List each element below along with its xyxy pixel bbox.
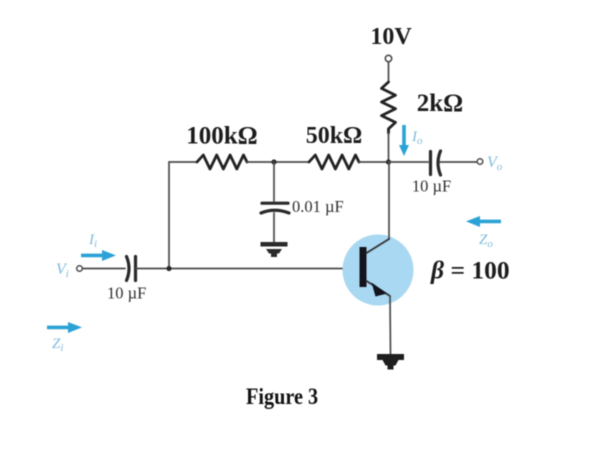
impedance arrow Zo [466, 216, 501, 227]
node junction bypass [271, 159, 276, 164]
wire 50k to collector node [359, 161, 389, 163]
terminal Vi [77, 266, 83, 272]
wire 100k to bypass node [247, 161, 309, 163]
capacitor C bypass 0.01uF [261, 203, 289, 213]
svg-text:2kΩ: 2kΩ [417, 90, 463, 117]
transistor Q1 highlight circle [343, 235, 414, 306]
svg-text:Vi: Vi [56, 261, 69, 280]
svg-text:Zo: Zo [479, 232, 493, 250]
svg-text:Ii: Ii [88, 232, 97, 250]
impedance arrow Zi [47, 322, 82, 333]
resistor R 100k (horizontal zigzag) [197, 155, 247, 169]
svg-text:Io: Io [411, 129, 423, 147]
node junction input [166, 266, 171, 271]
ground bypass [261, 242, 288, 257]
svg-text:50kΩ: 50kΩ [306, 123, 363, 149]
wire bypass cap to ground [273, 213, 275, 242]
wire emitter vertical [389, 296, 392, 354]
transistor Q1 [360, 239, 391, 297]
wire collector node to output cap [389, 161, 429, 163]
supply terminal [385, 55, 391, 61]
svg-text:Vo: Vo [487, 154, 503, 173]
svg-text:10 µF: 10 µF [107, 284, 146, 303]
wire cap to Vo terminal [440, 161, 477, 163]
svg-text:10 µF: 10 µF [412, 177, 451, 196]
svg-text:0.01 µF: 0.01 µF [292, 197, 344, 216]
svg-text:Zi: Zi [52, 336, 63, 354]
wire Vi to input cap [83, 268, 126, 270]
svg-text:β = 100: β = 100 [430, 256, 510, 285]
node junction collector [386, 159, 391, 164]
current arrow Ii [81, 250, 116, 261]
resistor R 2k (vertical zigzag) [382, 82, 396, 133]
wire collector vertical [388, 162, 390, 239]
ground emitter [377, 354, 404, 370]
svg-text:100kΩ: 100kΩ [186, 123, 257, 150]
wire input cap to base [136, 268, 360, 270]
terminal Vo [477, 159, 483, 165]
wire top rail left corner to 100k [169, 161, 197, 163]
current arrow Io [399, 125, 409, 156]
resistor R 50k (horizontal zigzag) [309, 155, 359, 169]
capacitor C in 10uF [127, 257, 136, 281]
wire left branch vertical [168, 162, 170, 269]
capacitor C out 10uF [431, 151, 441, 175]
svg-text:Figure 3: Figure 3 [246, 384, 318, 409]
wire supply to 2k resistor [388, 62, 390, 82]
wire bypass branch vertical [273, 162, 275, 201]
wire 2k to collector node [388, 133, 390, 162]
svg-text:10V: 10V [370, 24, 412, 50]
